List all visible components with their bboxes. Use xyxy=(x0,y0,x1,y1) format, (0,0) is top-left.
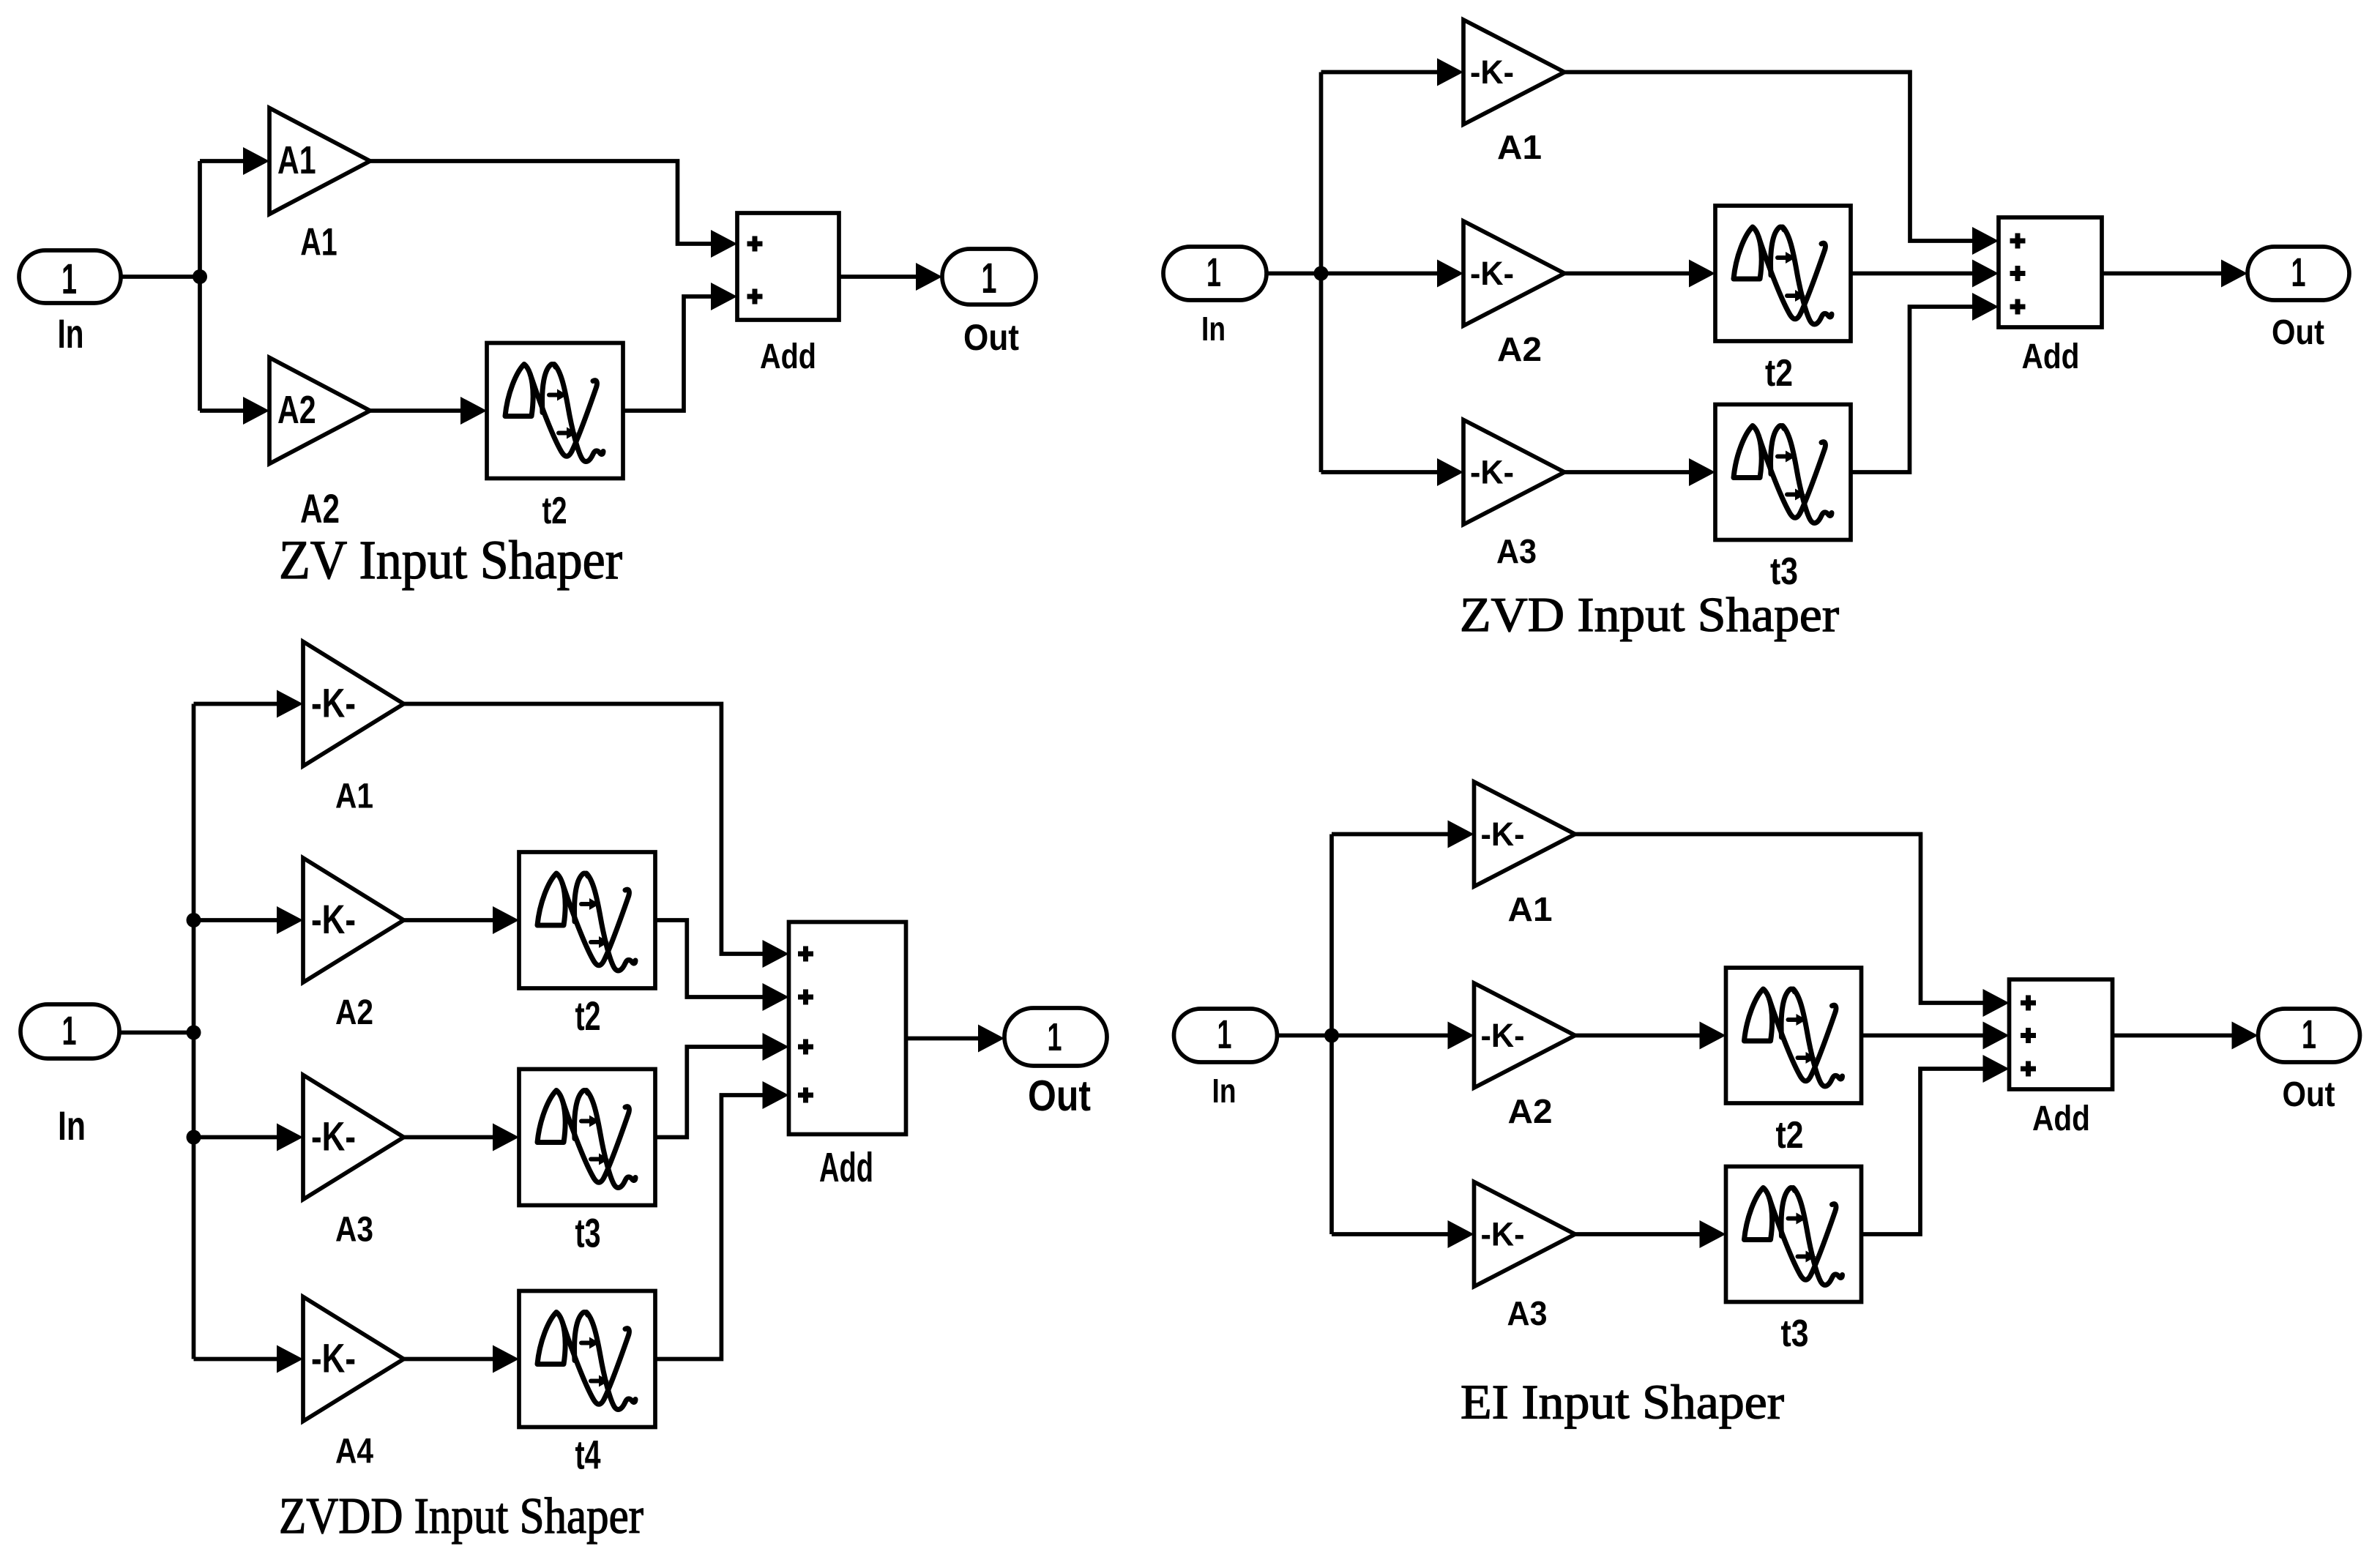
wire A1 to Add (ZVD) xyxy=(1564,72,1972,242)
transport delay t3 (ZVDD) xyxy=(519,1069,655,1206)
wire t2 to Add (ZV) xyxy=(623,296,711,411)
svg-text:t3: t3 xyxy=(575,1211,601,1256)
arrowhead into A4 (ZVDD) xyxy=(277,1345,303,1373)
arrowhead into t3 (ZVD) xyxy=(1689,458,1715,486)
wire A2 to t2 (ZVDD) xyxy=(404,918,493,922)
transport delay t4 (ZVDD) xyxy=(519,1291,655,1427)
svg-text:A2: A2 xyxy=(335,993,373,1032)
sum block Add (ZVDD) xyxy=(789,922,906,1135)
gain A2 (EI) xyxy=(1474,983,1575,1088)
svg-text:t3: t3 xyxy=(1781,1313,1809,1355)
wire A1 to Add (EI) xyxy=(1575,835,1983,1004)
arrowhead into A1 (EI) xyxy=(1448,821,1474,848)
svg-text:t4: t4 xyxy=(575,1433,601,1478)
wire A2 to t2 (ZVD) xyxy=(1564,272,1689,276)
svg-text:Out: Out xyxy=(2272,313,2324,352)
outport Out (ZVD) xyxy=(2247,247,2349,300)
wire trunk vertical (ZVD) xyxy=(1319,72,1324,473)
wire A4 to t4 (ZVDD) xyxy=(404,1357,493,1362)
wire In to junction (EI) xyxy=(1277,1034,1332,1038)
plus sign input 1 (ZVD) xyxy=(2010,234,2026,249)
arrowhead into Add input 3 (ZVD) xyxy=(1972,293,1999,321)
arrowhead into Add input 2 (ZVDD) xyxy=(763,983,789,1011)
wire A1 to Add (ZV) xyxy=(370,161,712,244)
plus sign input 2 (ZVD) xyxy=(2010,266,2026,281)
svg-text:1: 1 xyxy=(2302,1012,2316,1057)
arrowhead into Add input 3 (EI) xyxy=(1983,1055,2010,1083)
svg-text:A1: A1 xyxy=(335,777,373,816)
svg-text:A1: A1 xyxy=(300,221,337,264)
arrowhead into Out (ZV) xyxy=(916,263,942,291)
arrowhead into t2 (ZV) xyxy=(460,397,487,425)
svg-text:Add: Add xyxy=(819,1145,873,1191)
outport Out (EI) xyxy=(2258,1009,2360,1062)
arrowhead into A2 (EI) xyxy=(1448,1022,1474,1050)
inport In (ZVD) xyxy=(1163,247,1267,300)
arrowhead into t2 (ZVD) xyxy=(1689,260,1715,288)
svg-text:In: In xyxy=(1212,1072,1236,1110)
wire t2 to Add (ZVDD) xyxy=(655,920,763,997)
junction node (ZV) xyxy=(193,269,207,284)
gain A1 (ZVD) xyxy=(1463,20,1564,124)
wire t3 to Add (ZVD) xyxy=(1851,307,1972,472)
wire trunk vertical (ZV) xyxy=(198,161,202,411)
wire In to junction (ZVDD) xyxy=(119,1031,194,1035)
junction node at In (ZVDD) xyxy=(187,1026,201,1040)
svg-text:-K-: -K- xyxy=(1470,53,1514,91)
plus sign input 3 (ZVD) xyxy=(2010,299,2026,315)
svg-text:Out: Out xyxy=(1028,1071,1091,1120)
wire t2 to Add (EI) xyxy=(1862,1034,1983,1038)
svg-text:-K-: -K- xyxy=(1481,815,1525,853)
arrowhead into Add input 2 (EI) xyxy=(1983,1022,2010,1050)
arrowhead into A2 (ZVDD) xyxy=(277,906,303,934)
gain A2 (ZV) xyxy=(269,358,370,464)
wire to gain A3 (ZVD) xyxy=(1321,470,1438,474)
wire to gain A1 (ZVDD) xyxy=(194,702,277,706)
arrowhead into A3 (EI) xyxy=(1448,1220,1474,1248)
transport delay t3 (ZVD) xyxy=(1715,405,1851,540)
arrowhead into A2 (ZV) xyxy=(243,397,269,425)
svg-text:A2: A2 xyxy=(1508,1092,1553,1130)
transport delay t2 (ZV) xyxy=(487,343,623,479)
arrowhead into A2 (ZVD) xyxy=(1437,260,1463,288)
svg-text:A3: A3 xyxy=(1496,532,1537,570)
svg-text:In: In xyxy=(1201,310,1226,348)
junction node at A3 (ZVDD) xyxy=(187,1130,201,1145)
wire to gain A1 (ZVD) xyxy=(1321,70,1438,75)
plus sign input 3 (ZVDD) xyxy=(798,1039,813,1055)
arrowhead into Out (ZVDD) xyxy=(978,1025,1004,1053)
transport delay t3 (EI) xyxy=(1726,1167,1862,1302)
svg-text:Out: Out xyxy=(963,316,1019,358)
svg-text:ZVD Input Shaper: ZVD Input Shaper xyxy=(1460,589,1839,642)
arrowhead into Add input 1 (EI) xyxy=(1983,989,2010,1017)
inport In (EI) xyxy=(1174,1009,1277,1062)
wire to gain A2 (EI) xyxy=(1332,1034,1448,1038)
transport delay t2 (EI) xyxy=(1726,968,1862,1103)
wire t4 to Add (ZVDD) xyxy=(655,1095,763,1359)
svg-text:t2: t2 xyxy=(542,490,567,532)
svg-text:Add: Add xyxy=(2022,337,2080,376)
arrowhead into Out (ZVD) xyxy=(2221,260,2247,288)
wire Add to Out (ZVDD) xyxy=(906,1037,979,1041)
svg-text:A2: A2 xyxy=(1497,330,1542,368)
sum block Add (ZVD) xyxy=(1999,217,2102,327)
svg-text:A2: A2 xyxy=(300,486,340,531)
sum block Add (ZV) xyxy=(737,213,839,320)
wire Add to Out (EI) xyxy=(2113,1034,2232,1038)
arrowhead into t2 (ZVDD) xyxy=(493,906,519,934)
wire t2 to Add (ZVD) xyxy=(1851,272,1972,276)
svg-text:1: 1 xyxy=(62,1008,77,1053)
wire to gain A3 (ZVDD) xyxy=(194,1135,277,1140)
plus sign input 1 (ZVDD) xyxy=(798,947,813,962)
gain A2 (ZVDD) xyxy=(303,858,404,982)
wire to gain A1 (EI) xyxy=(1332,832,1448,837)
transport delay icon t2 (EI) xyxy=(1745,989,1843,1086)
svg-text:Add: Add xyxy=(760,337,816,376)
junction node (ZVD) xyxy=(1314,266,1329,281)
gain A1 (ZV) xyxy=(269,108,370,214)
svg-text:A1: A1 xyxy=(1508,890,1553,928)
transport delay t2 (ZVDD) xyxy=(519,852,655,988)
wire Add to Out (ZV) xyxy=(839,275,916,279)
junction node (EI) xyxy=(1324,1028,1339,1043)
transport delay icon t3 (EI) xyxy=(1745,1188,1843,1285)
gain A4 (ZVDD) xyxy=(303,1297,404,1422)
arrowhead into Add input 2 (ZVD) xyxy=(1972,260,1999,288)
svg-text:In: In xyxy=(58,311,84,356)
wire to gain A2 (ZV) xyxy=(200,408,243,413)
gain A1 (EI) xyxy=(1474,782,1575,886)
wire Add to Out (ZVD) xyxy=(2102,272,2221,276)
transport delay icon t3 (ZVD) xyxy=(1734,426,1832,523)
wire A2 to t2 (EI) xyxy=(1575,1034,1700,1038)
arrowhead into t2 (EI) xyxy=(1700,1022,1726,1050)
wire t3 to Add (EI) xyxy=(1862,1069,1983,1234)
arrowhead into Add input 2 (ZV) xyxy=(711,283,737,310)
wire A3 to t3 (ZVDD) xyxy=(404,1135,493,1140)
svg-text:-K-: -K- xyxy=(1481,1017,1525,1054)
arrowhead into A3 (ZVDD) xyxy=(277,1124,303,1151)
wire to gain A1 (ZV) xyxy=(200,159,243,163)
arrowhead into Add input 1 (ZV) xyxy=(711,230,737,258)
svg-text:t3: t3 xyxy=(1770,550,1798,593)
svg-text:A2: A2 xyxy=(277,388,316,432)
arrowhead into Out (EI) xyxy=(2232,1022,2258,1050)
svg-text:-K-: -K- xyxy=(1470,454,1514,491)
svg-text:1: 1 xyxy=(61,255,77,303)
wire to gain A2 (ZVD) xyxy=(1321,272,1438,276)
svg-text:1: 1 xyxy=(982,255,997,302)
arrowhead into Add input 4 (ZVDD) xyxy=(763,1081,789,1109)
plus sign input 1 (EI) xyxy=(2021,996,2036,1011)
wire In to junction (ZV) xyxy=(121,275,200,279)
svg-text:1: 1 xyxy=(2291,250,2306,295)
svg-text:1: 1 xyxy=(1048,1015,1062,1059)
wire to gain A4 (ZVDD) xyxy=(194,1357,277,1362)
svg-text:In: In xyxy=(58,1103,86,1149)
svg-text:-K-: -K- xyxy=(1470,255,1514,292)
arrowhead into t3 (ZVDD) xyxy=(493,1124,519,1151)
transport delay icon t3 (ZVDD) xyxy=(537,1091,635,1188)
svg-text:-K-: -K- xyxy=(311,1114,356,1160)
plus sign input 1 (ZV) xyxy=(747,236,763,252)
gain A1 (ZVDD) xyxy=(303,642,404,766)
gain A3 (ZVDD) xyxy=(303,1075,404,1200)
outport Out (ZV) xyxy=(942,249,1036,305)
wire In to junction (ZVD) xyxy=(1267,272,1321,276)
svg-text:ZV Input Shaper: ZV Input Shaper xyxy=(279,530,622,591)
wire trunk vertical (EI) xyxy=(1329,835,1334,1235)
junction node at A2 (ZVDD) xyxy=(187,913,201,927)
transport delay icon t2 (ZVD) xyxy=(1734,227,1832,324)
svg-text:-K-: -K- xyxy=(1481,1216,1525,1253)
wire A3 to t3 (ZVD) xyxy=(1564,470,1689,474)
wire t3 to Add (ZVDD) xyxy=(655,1047,763,1138)
transport delay icon t2 (ZVDD) xyxy=(537,873,635,971)
sum block Add (EI) xyxy=(2010,979,2113,1089)
transport delay icon t4 (ZVDD) xyxy=(537,1313,635,1410)
wire A1 to Add (ZVDD) xyxy=(404,704,763,955)
wire trunk vertical (ZVDD) xyxy=(192,704,196,1359)
svg-text:-K-: -K- xyxy=(311,897,356,942)
arrowhead into A1 (ZV) xyxy=(243,147,269,175)
svg-text:1: 1 xyxy=(1217,1012,1232,1057)
gain A3 (EI) xyxy=(1474,1182,1575,1287)
svg-text:Add: Add xyxy=(2032,1100,2090,1138)
arrowhead into A1 (ZVDD) xyxy=(277,690,303,718)
transport delay icon t2 (ZV) xyxy=(505,365,603,462)
outport Out (ZVDD) xyxy=(1004,1008,1107,1066)
plus sign input 4 (ZVDD) xyxy=(798,1088,813,1103)
inport In (ZVDD) xyxy=(20,1004,119,1059)
svg-text:A3: A3 xyxy=(1507,1294,1548,1332)
svg-text:A3: A3 xyxy=(335,1211,373,1250)
transport delay t2 (ZVD) xyxy=(1715,206,1851,341)
inport In (ZV) xyxy=(19,250,121,303)
arrowhead into A1 (ZVD) xyxy=(1437,59,1463,86)
svg-text:1: 1 xyxy=(1206,250,1221,295)
plus sign input 2 (ZV) xyxy=(747,289,763,305)
arrowhead into t4 (ZVDD) xyxy=(493,1345,519,1373)
wire to gain A2 (ZVDD) xyxy=(194,918,277,922)
svg-text:A4: A4 xyxy=(335,1433,373,1471)
plus sign input 2 (ZVDD) xyxy=(798,990,813,1005)
arrowhead into Add input 3 (ZVDD) xyxy=(763,1033,789,1061)
gain A2 (ZVD) xyxy=(1463,221,1564,326)
svg-text:ZVDD Input Shaper: ZVDD Input Shaper xyxy=(279,1488,644,1545)
wire to gain A3 (EI) xyxy=(1332,1232,1448,1236)
plus sign input 3 (EI) xyxy=(2021,1061,2036,1077)
arrowhead into t3 (EI) xyxy=(1700,1220,1726,1248)
svg-text:t2: t2 xyxy=(1776,1114,1804,1157)
arrowhead into A3 (ZVD) xyxy=(1437,458,1463,486)
svg-text:EI Input Shaper: EI Input Shaper xyxy=(1461,1376,1784,1430)
svg-text:A1: A1 xyxy=(1497,128,1542,166)
svg-text:-K-: -K- xyxy=(311,1336,356,1381)
wire A2 to t2 (ZV) xyxy=(370,408,461,413)
arrowhead into Add input 1 (ZVD) xyxy=(1972,227,1999,255)
svg-text:t2: t2 xyxy=(1765,352,1793,395)
arrowhead into Add input 1 (ZVDD) xyxy=(763,940,789,968)
svg-text:-K-: -K- xyxy=(311,681,356,726)
svg-text:Out: Out xyxy=(2283,1075,2335,1114)
plus sign input 2 (EI) xyxy=(2021,1028,2036,1043)
gain A3 (ZVD) xyxy=(1463,420,1564,525)
svg-text:t2: t2 xyxy=(575,993,601,1039)
wire A3 to t3 (EI) xyxy=(1575,1232,1700,1236)
svg-text:A1: A1 xyxy=(277,138,316,182)
